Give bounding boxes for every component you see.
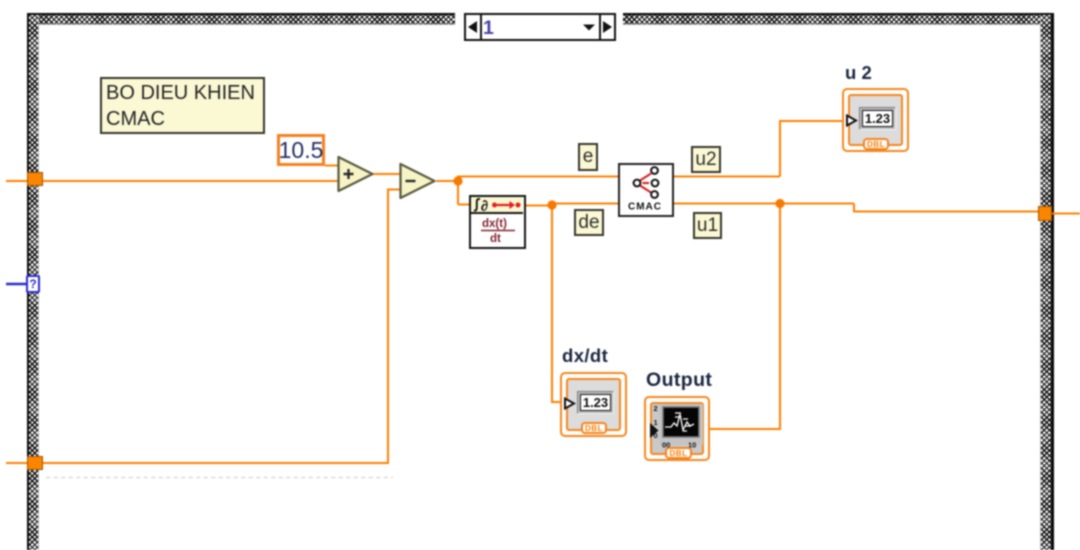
svg-text:∂: ∂ bbox=[481, 200, 488, 213]
svg-text:dt: dt bbox=[490, 233, 501, 245]
svg-text:dx(t): dx(t) bbox=[482, 218, 507, 230]
svg-text:2: 2 bbox=[654, 404, 658, 413]
svg-text:1: 1 bbox=[654, 418, 658, 427]
svg-text:CMAC: CMAC bbox=[628, 202, 662, 213]
